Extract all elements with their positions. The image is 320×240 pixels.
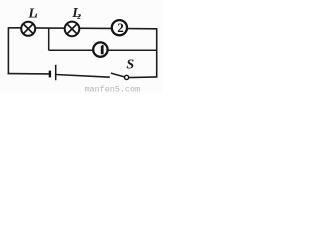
wire: left vertical side — [7, 27, 9, 74]
switch S blade — [111, 73, 125, 77]
wire: bottom-left to battery — [8, 73, 50, 75]
switch terminal circle — [125, 75, 129, 79]
wire: right vertical side — [156, 28, 158, 77]
wire: middle branch horizontal — [49, 49, 157, 51]
ammeter 2 — [112, 20, 127, 35]
svg-text:S: S — [126, 57, 134, 72]
svg-text:2: 2 — [117, 20, 124, 35]
svg-text:manfen5.com: manfen5.com — [85, 85, 141, 95]
lamp L1 — [21, 22, 35, 36]
svg-text:1: 1 — [35, 13, 38, 20]
battery negative short plate — [49, 71, 51, 78]
ammeter 1 — [93, 42, 107, 56]
svg-text:2: 2 — [76, 12, 81, 21]
wire: top, from top-left corner to top-right corner — [8, 28, 157, 29]
battery positive long plate — [55, 65, 57, 80]
wire: battery to switch — [56, 75, 110, 78]
node junction vertical between L1 and L2 down to meter-1 branch — [48, 28, 50, 50]
wire: switch to bottom-right corner — [129, 76, 157, 79]
lamp L2 — [65, 22, 80, 37]
